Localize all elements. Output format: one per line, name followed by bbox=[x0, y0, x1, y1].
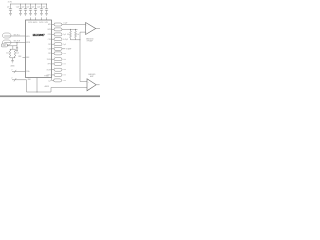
svg-text:0.47µF: 0.47µF bbox=[63, 39, 68, 41]
wire IC bottom pin down bbox=[36, 78, 38, 93]
capacitor OUTR coupling bbox=[54, 68, 62, 71]
ground bbox=[24, 13, 27, 15]
wire pin stub to IC top bbox=[46, 17, 48, 20]
ground bbox=[9, 13, 12, 15]
pin row HPL y24.5 bbox=[52, 24, 55, 26]
op-amp U3 bbox=[87, 79, 96, 91]
svg-text:0.1µF: 0.1µF bbox=[16, 7, 20, 9]
svg-text:+: + bbox=[86, 25, 87, 27]
svg-text:C2N: C2N bbox=[48, 48, 51, 50]
svg-text:0.1µF: 0.1µF bbox=[37, 7, 41, 9]
svg-text:MIC IN L: MIC IN L bbox=[14, 34, 20, 36]
wire bias vertical bbox=[16, 43, 18, 46]
pin row HPR y29.4 bbox=[52, 28, 55, 30]
ground bbox=[11, 61, 14, 63]
capacitor SVSS coupling bbox=[54, 58, 62, 61]
wire mic2 to IC bbox=[4, 42, 25, 44]
capacitor C8 bbox=[16, 46, 18, 51]
svg-text:MAX4465: MAX4465 bbox=[88, 73, 95, 76]
capacitor C1 bbox=[7, 4, 12, 14]
capacitor C20 bbox=[54, 79, 62, 82]
capacitor HPS coupling bbox=[54, 62, 62, 65]
node junction bbox=[80, 39, 81, 40]
wire divider bottom rail bbox=[10, 57, 15, 59]
capacitor C2N coupling bbox=[54, 47, 62, 50]
wire opamp1 output bbox=[96, 28, 100, 30]
svg-text:10k: 10k bbox=[77, 34, 80, 36]
svg-text:2: 2 bbox=[11, 78, 12, 80]
ground bbox=[40, 13, 43, 15]
pin row C2P y53.4 bbox=[52, 52, 55, 54]
capacitor C4 bbox=[26, 4, 32, 14]
wire opamp2 output bbox=[96, 84, 99, 86]
node junction bbox=[75, 29, 76, 30]
svg-text:REF: REF bbox=[18, 56, 21, 58]
capacitor OUTL coupling bbox=[54, 73, 62, 76]
wire bus 2 bbox=[12, 79, 27, 81]
svg-text:SVSS: SVSS bbox=[47, 59, 51, 61]
capacitor HPL coupling bbox=[54, 23, 62, 26]
pin row C1N y39.2 bbox=[52, 38, 55, 40]
svg-text:AGND: AGND bbox=[45, 85, 50, 88]
pin row CPN y34.4 bbox=[52, 33, 55, 35]
svg-text:0.1µF: 0.1µF bbox=[26, 7, 30, 9]
wire to divider bbox=[12, 46, 14, 49]
node dots bbox=[63, 52, 66, 55]
svg-text:REF: REF bbox=[26, 57, 29, 59]
svg-text:2.2k: 2.2k bbox=[6, 53, 9, 55]
wire down left bbox=[27, 80, 52, 92]
svg-text:AGND: AGND bbox=[11, 64, 15, 67]
svg-text:10µF: 10µF bbox=[42, 7, 45, 9]
node dots bbox=[63, 79, 66, 82]
capacitor HPR coupling bbox=[54, 28, 62, 31]
svg-text:10µF: 10µF bbox=[31, 7, 34, 9]
wire divider top rail bbox=[10, 48, 15, 50]
node junction bbox=[37, 92, 38, 93]
svg-text:HPS: HPS bbox=[48, 64, 51, 66]
svg-text:MIC IN R: MIC IN R bbox=[14, 40, 21, 42]
pin row OUTL y74.9 bbox=[52, 74, 55, 76]
svg-text:TO AMP: TO AMP bbox=[66, 47, 72, 50]
svg-text:7: 7 bbox=[11, 69, 12, 71]
resistor R2 bbox=[14, 49, 16, 58]
wire bias bbox=[7, 45, 17, 47]
svg-text:10µF: 10µF bbox=[21, 7, 24, 9]
svg-text:1µF: 1µF bbox=[63, 34, 66, 36]
pin row C1P y44.2 bbox=[52, 43, 55, 45]
svg-text:0.1µF: 0.1µF bbox=[63, 23, 67, 25]
svg-text:HPL: HPL bbox=[48, 24, 51, 26]
svg-text:MAX4410: MAX4410 bbox=[86, 37, 93, 40]
wire to opamp1 inverting bbox=[80, 32, 86, 40]
ground bbox=[16, 50, 18, 53]
ground bbox=[19, 13, 22, 15]
node dots bbox=[63, 74, 66, 77]
wire row to resistor divider bbox=[62, 28, 78, 30]
resistor R3 bbox=[70, 29, 72, 40]
svg-text:C2P: C2P bbox=[48, 53, 51, 55]
svg-text:CPN: CPN bbox=[48, 34, 51, 36]
IC U1 MAX9867 bbox=[26, 20, 52, 78]
node junction bbox=[16, 42, 17, 43]
svg-text:+: + bbox=[88, 82, 89, 84]
pin row C2N y48.8 bbox=[52, 48, 55, 50]
op-amp U2 bbox=[86, 23, 96, 35]
microphone MK2 bbox=[3, 40, 12, 45]
capacitor CPN coupling bbox=[54, 33, 62, 36]
bus slash bbox=[14, 70, 16, 73]
resistor R4 bbox=[75, 29, 77, 40]
node junction bbox=[70, 29, 71, 30]
capacitor C6 bbox=[37, 4, 43, 14]
resistor R1 bbox=[9, 49, 11, 58]
svg-text:3.3V: 3.3V bbox=[8, 1, 13, 3]
wire shared reference down bbox=[80, 40, 87, 82]
wire resistor bottoms bbox=[71, 39, 81, 41]
svg-text:MAX9867: MAX9867 bbox=[33, 33, 45, 37]
svg-text:HPV: HPV bbox=[45, 22, 48, 24]
ground bbox=[45, 13, 48, 15]
svg-text:MICL: MICL bbox=[26, 36, 30, 38]
node VMIC box bbox=[1, 44, 7, 47]
capacitor C1N coupling bbox=[54, 38, 62, 41]
wire bottom box stub bbox=[51, 78, 53, 81]
pin row SVSS y59.2 bbox=[52, 58, 55, 60]
wire REF stub bbox=[23, 57, 26, 59]
wire mic1 to IC bbox=[4, 35, 25, 37]
ground bbox=[34, 13, 37, 15]
bus slash bbox=[14, 78, 16, 81]
capacitor C2P coupling bbox=[54, 52, 62, 55]
wire step up bbox=[51, 88, 87, 93]
node dots bbox=[63, 68, 66, 71]
svg-text:GND: GND bbox=[28, 79, 32, 81]
svg-text:1µF: 1µF bbox=[7, 7, 10, 9]
pin row OUTR y69.7 bbox=[52, 69, 55, 71]
wire bbox=[12, 58, 14, 61]
wire row to opamp1 noninverting bbox=[62, 24, 86, 26]
svg-text:C1N: C1N bbox=[48, 39, 51, 41]
svg-text:2.2k: 2.2k bbox=[16, 53, 19, 55]
microphone MK1 bbox=[3, 33, 12, 38]
svg-text:1µF: 1µF bbox=[48, 81, 51, 83]
capacitor C5 bbox=[31, 4, 37, 14]
pin row HPS y63.9 bbox=[52, 63, 55, 65]
wire out bbox=[62, 48, 65, 50]
wire bus SDA/SCL bbox=[12, 71, 26, 73]
wire pin stub to IC top bbox=[41, 17, 43, 20]
ground bbox=[29, 13, 32, 15]
wire V+ rail bbox=[11, 3, 48, 5]
svg-text:10k: 10k bbox=[67, 34, 70, 36]
capacitor C7 bbox=[42, 4, 48, 14]
capacitor C2 bbox=[16, 4, 22, 14]
svg-text:OUTL: OUTL bbox=[47, 75, 51, 77]
wire pin stub to IC top bbox=[35, 17, 37, 20]
capacitor C1P coupling bbox=[54, 43, 62, 46]
svg-text:1µF: 1µF bbox=[63, 44, 66, 46]
wire pin stub to IC top bbox=[30, 17, 32, 20]
bottom rule bbox=[0, 95, 100, 97]
wire bbox=[52, 79, 54, 81]
capacitor C3 bbox=[21, 4, 27, 14]
node dots bbox=[63, 58, 66, 61]
node dots bbox=[63, 63, 66, 66]
svg-text:C1P: C1P bbox=[48, 44, 51, 46]
